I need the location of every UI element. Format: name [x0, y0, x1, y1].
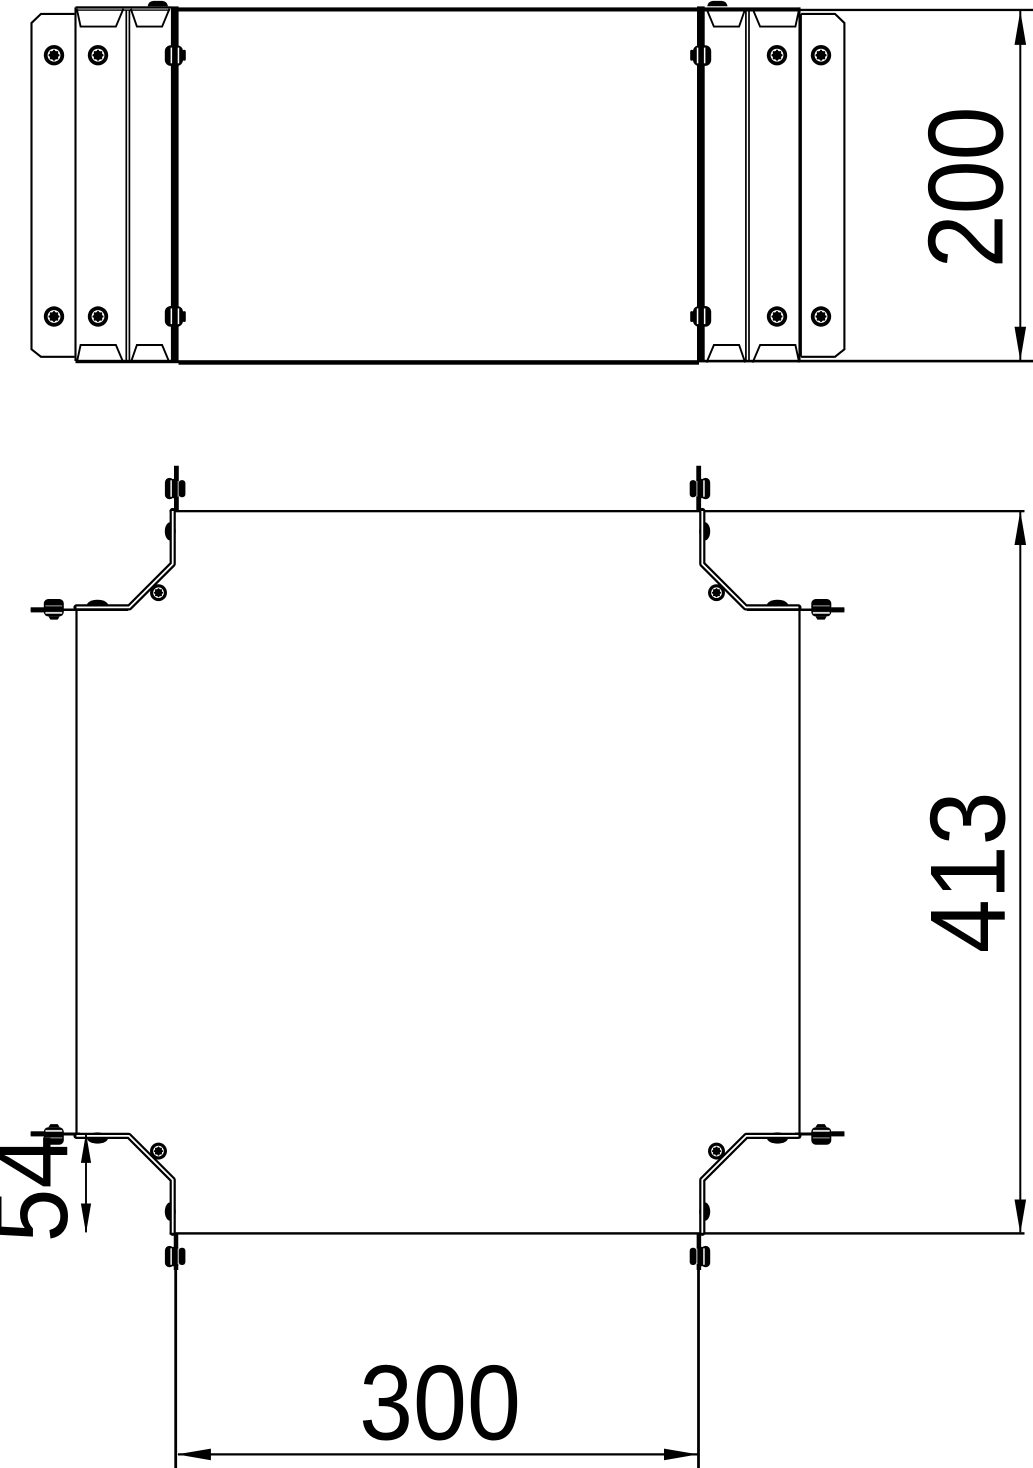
corner bracket bolt bump TL vertical — [165, 522, 176, 540]
right coupler thick end bar — [697, 6, 705, 361]
wire: bottom arm left edge extension — [174, 1270, 177, 1468]
wire: bottom arm left edge thick — [174, 1233, 179, 1270]
corner bracket bolt bump TR vertical — [699, 522, 710, 540]
right coupler bottom notch 1 — [707, 345, 746, 363]
right coupler top cap — [707, 1, 727, 6]
corner bracket bolt bump BL horizontal — [87, 1132, 108, 1143]
dimension 413 arrow down — [1015, 1200, 1027, 1234]
wire: rail bottom line left thin segment — [76, 360, 179, 363]
wire: bottom arm right edge extension — [697, 1270, 700, 1468]
right coupler top notch 1 — [707, 9, 746, 27]
left coupler top notch 1 — [77, 9, 124, 27]
left coupler bar 2 left edge — [74, 7, 76, 361]
top arm left end bolt — [165, 478, 186, 499]
wire: bottom arm right edge thick — [697, 1233, 702, 1270]
dimension 200 arrow up — [1015, 11, 1027, 45]
left coupler outer plate — [32, 14, 75, 357]
right coupler top notch 2 — [753, 9, 800, 27]
wire: square top edge / dim extension — [170, 510, 1025, 512]
corner bracket BL — [77, 1136, 173, 1233]
svg-text:200: 200 — [906, 106, 1025, 268]
wire: rail top secondary line left coupler — [77, 9, 171, 10]
dimension 54 arrow down — [81, 1203, 91, 1233]
left coupler joint double line b — [128, 10, 130, 361]
right coupler upper side bolt — [690, 45, 711, 66]
dimension 413 arrow up — [1015, 511, 1027, 545]
left coupler bottom notch 1 — [77, 345, 124, 363]
torx screw plan BR — [708, 1143, 725, 1160]
torx screw top view upper left 1 — [44, 45, 64, 65]
corner bracket bolt bump TL horizontal — [87, 600, 108, 611]
torx screw top view upper right 1 — [767, 45, 787, 65]
right coupler bottom notch 2 — [753, 345, 800, 363]
right arm bottom edge bolt — [811, 1124, 844, 1145]
svg-text:413: 413 — [908, 791, 1027, 953]
wire: square right edge — [798, 605, 800, 1138]
left coupler top notch 2 — [131, 9, 170, 27]
corner bracket bolt bump BR vertical — [699, 1202, 710, 1220]
torx screw top view lower left 1 — [44, 306, 64, 326]
right coupler outer plate — [801, 14, 844, 357]
wire: left arm bottom edge — [31, 1133, 80, 1136]
wire: top arm right edge — [696, 466, 701, 512]
left arm top edge bolt — [31, 599, 64, 620]
dimension 300 arrow left — [177, 1449, 211, 1461]
wire: left arm top edge — [31, 608, 128, 611]
dimension 300 line — [178, 1453, 698, 1455]
right coupler plate left edge — [800, 14, 802, 357]
wire: rail bottom line right thin segment — [699, 360, 1033, 363]
wire: rail top line far right thin segment — [799, 9, 1033, 11]
wire: top arm left edge — [174, 466, 179, 512]
wire: square bottom edge / dim extension — [170, 1232, 1025, 1234]
bottom arm left end bolt — [165, 1246, 186, 1267]
dimension 300 arrow right — [664, 1449, 698, 1461]
top arm right end bolt — [690, 478, 711, 499]
svg-text:300: 300 — [359, 1343, 521, 1462]
left coupler lower side bolt — [165, 306, 186, 327]
torx screw top view lower left 2 — [88, 306, 108, 326]
left arm bottom edge bolt — [31, 1124, 64, 1145]
wire: square left edge — [75, 605, 77, 1138]
left coupler top cap — [148, 1, 168, 6]
dimension 413 line — [1019, 512, 1021, 1232]
torx screw plan BL — [150, 1143, 167, 1160]
corner bracket TR — [702, 511, 798, 607]
torx screw top view lower right 2 — [811, 306, 831, 326]
left coupler bottom notch 2 — [131, 345, 170, 363]
dimension 54 arrow up — [81, 1133, 91, 1163]
right arm top edge bolt — [811, 599, 844, 620]
right coupler joint double line a — [745, 10, 747, 361]
corner bracket bolt bump BL vertical — [165, 1202, 176, 1220]
torx screw plan TL — [150, 584, 167, 601]
left coupler joint double line a — [125, 10, 127, 361]
right coupler boundary vertical line — [798, 7, 800, 361]
torx screw top view lower right 1 — [767, 306, 787, 326]
corner bracket bolt bump BR horizontal — [767, 1132, 788, 1143]
bottom arm right end bolt — [690, 1246, 711, 1267]
dimension 200 line — [1019, 11, 1021, 361]
wire: right arm top edge — [747, 608, 844, 611]
torx screw top view upper left 2 — [88, 45, 108, 65]
corner bracket BR — [702, 1136, 798, 1233]
torx screw top view upper right 2 — [811, 45, 831, 65]
corner bracket bolt bump TR horizontal — [767, 600, 788, 611]
left coupler upper side bolt — [165, 45, 186, 66]
wire: rail bottom line main thick segment — [179, 360, 700, 365]
dimension 200 arrow down — [1015, 327, 1027, 361]
left coupler thick end bar — [171, 6, 179, 361]
wire: right arm bottom edge — [795, 1133, 844, 1136]
right coupler lower side bolt — [690, 306, 711, 327]
torx screw plan TR — [708, 584, 725, 601]
corner bracket TL — [77, 511, 173, 607]
wire: rail top line main thick segment — [171, 7, 799, 11]
wire: rail top line left coupler segment — [76, 6, 172, 8]
dimension 54 line — [85, 1134, 87, 1232]
right coupler joint double line b — [748, 10, 750, 361]
svg-text:54: 54 — [0, 1135, 90, 1243]
